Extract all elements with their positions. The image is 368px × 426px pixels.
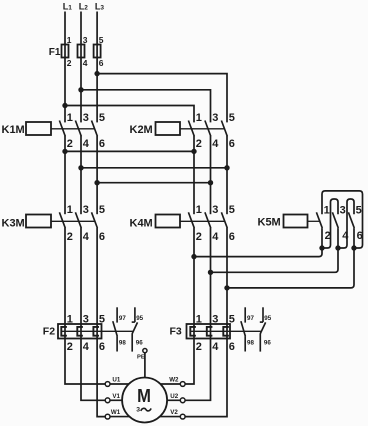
- svg-text:1: 1: [67, 313, 73, 325]
- terminal U1: [105, 382, 110, 387]
- contactor K4M coil: [156, 215, 181, 228]
- svg-text:1: 1: [196, 112, 202, 124]
- wire U2 stub to motor: [167, 399, 180, 401]
- svg-text:97: 97: [119, 315, 126, 322]
- svg-text:4: 4: [83, 138, 90, 150]
- svg-text:98: 98: [247, 340, 254, 347]
- overload F2 NO aux contact 97-98: [116, 307, 118, 322]
- wire V2 stub to motor: [160, 416, 181, 418]
- node tie row 1 right junction: [192, 149, 196, 153]
- svg-text:3: 3: [340, 204, 346, 216]
- overload F3 NO aux contact 97-98: [244, 307, 246, 322]
- fuse F1 pole 3 body: [94, 45, 101, 58]
- svg-text:5: 5: [356, 204, 362, 216]
- contactor K5M coil: [284, 215, 308, 228]
- svg-text:1: 1: [67, 35, 72, 45]
- wire K4M pole 2 through F3 to motor: [185, 228, 210, 401]
- wire L1 vertical: [64, 12, 66, 123]
- svg-text:5: 5: [99, 112, 105, 124]
- wire K1M pole 2 to K3M pole 2: [80, 136, 82, 214]
- svg-text:4: 4: [83, 341, 90, 353]
- svg-text:1: 1: [67, 112, 73, 124]
- wire K5M ring pin2 to pin3 loop: [322, 199, 338, 248]
- wire V1 stub to motor: [110, 399, 122, 401]
- wire tie K1M-2 to K2M-2: [65, 150, 194, 152]
- overload relay F3 body: [187, 324, 231, 339]
- svg-text:96: 96: [264, 340, 271, 347]
- svg-text:6: 6: [229, 341, 235, 353]
- svg-text:L1: L1: [63, 1, 73, 11]
- overload F2 heater element 3: [93, 327, 99, 336]
- terminal V2: [180, 414, 185, 419]
- svg-text:3: 3: [212, 313, 218, 325]
- fuse F1 pole 2 body: [78, 45, 85, 58]
- svg-text:4: 4: [212, 231, 219, 243]
- wire K1M pole 3 to K3M pole 3: [96, 136, 98, 214]
- contactor K2M actuator link: [180, 128, 225, 130]
- node K5M pole 3 bottom junction: [352, 246, 356, 250]
- svg-text:3: 3: [83, 112, 89, 124]
- wire K2M pole 1 to K4M pole 1: [193, 136, 195, 214]
- svg-text:6: 6: [99, 231, 105, 243]
- node tie row 2 right junction: [225, 166, 229, 170]
- wire K5M ring pin1 to pin6 bracket: [322, 191, 363, 248]
- contact blade K4M pole 1: [188, 212, 194, 228]
- svg-text:4: 4: [83, 58, 88, 68]
- contact blade K1M pole 2: [75, 121, 81, 137]
- svg-text:F1: F1: [49, 47, 61, 58]
- svg-text:5: 5: [99, 35, 104, 45]
- contactor K2M coil: [156, 122, 181, 135]
- fuse F1 pole 1 body: [62, 45, 69, 58]
- wire tie K1M-6 to K2M-4: [97, 182, 210, 184]
- terminal V1: [105, 398, 110, 403]
- contact blade K2M pole 1: [188, 121, 194, 137]
- terminal U2: [180, 398, 185, 403]
- overload relay F2 body: [58, 324, 102, 339]
- svg-text:3: 3: [83, 35, 88, 45]
- wire K5M pole 2 to K4M column 2: [211, 248, 339, 272]
- node tie row 3 left junction: [95, 181, 99, 185]
- wire U1 stub to motor: [110, 383, 129, 385]
- terminal PE: [143, 349, 147, 353]
- svg-text:4: 4: [342, 230, 349, 242]
- svg-text:K3M: K3M: [2, 217, 25, 229]
- contact blade K3M pole 2: [75, 212, 81, 228]
- svg-text:5: 5: [229, 204, 235, 216]
- wire K3M pole 3 through F2 to motor: [97, 228, 105, 417]
- wire K4M pole 1 through F3 to motor: [185, 228, 194, 384]
- svg-text:6: 6: [229, 138, 235, 150]
- contact blade K1M pole 1: [59, 121, 65, 137]
- node star tie junction column 3: [225, 286, 229, 290]
- contact blade K3M pole 3: [92, 212, 98, 228]
- svg-text:4: 4: [212, 138, 219, 150]
- wire L2 vertical: [80, 12, 82, 123]
- overload F3 trip link: [190, 330, 262, 332]
- overload F3 heater element 3: [223, 327, 229, 336]
- svg-text:2: 2: [196, 341, 202, 353]
- wire K5M ring pin4 to pin5 loop: [338, 199, 354, 248]
- svg-text:V1: V1: [112, 393, 120, 400]
- svg-text:6: 6: [99, 138, 105, 150]
- svg-text:U1: U1: [112, 377, 120, 384]
- node L2 branch junction: [79, 88, 83, 92]
- node tie row 3 right junction: [208, 181, 212, 185]
- svg-text:1: 1: [196, 204, 202, 216]
- svg-text:M: M: [137, 385, 151, 406]
- wire K3M pole 1 through F2 to motor: [65, 228, 105, 384]
- contact blade K5M pole 1: [316, 212, 322, 228]
- svg-text:K4M: K4M: [130, 217, 153, 229]
- svg-text:3: 3: [83, 313, 89, 325]
- svg-text:4: 4: [212, 341, 219, 353]
- svg-text:5: 5: [229, 313, 235, 325]
- svg-text:2: 2: [196, 231, 202, 243]
- contact blade K2M pole 2: [205, 121, 211, 137]
- svg-text:2: 2: [67, 231, 73, 243]
- motor M1 tilde: [141, 408, 151, 411]
- node L3 branch junction: [95, 71, 99, 75]
- contact blade K1M pole 3: [92, 121, 98, 137]
- svg-text:2: 2: [325, 230, 331, 242]
- node L1 branch junction: [63, 103, 67, 107]
- svg-text:2: 2: [67, 58, 72, 68]
- wire K5M pole 1 to K4M column 1: [194, 248, 322, 257]
- contactor K3M actuator link: [51, 220, 95, 222]
- contact blade K5M pole 3: [348, 212, 354, 228]
- wire K2M pole 3 to K4M pole 3: [226, 136, 228, 214]
- wire L3 branch to K2M pole 3: [97, 74, 227, 123]
- svg-text:4: 4: [83, 231, 90, 243]
- node K5M pole 2 bottom junction: [336, 246, 340, 250]
- wire K2M pole 2 to K4M pole 2: [210, 136, 212, 214]
- svg-text:W2: W2: [169, 377, 179, 384]
- svg-text:K2M: K2M: [130, 124, 153, 136]
- svg-text:L2: L2: [79, 1, 89, 11]
- contact blade K3M pole 1: [59, 212, 65, 228]
- contactor K3M coil: [26, 215, 51, 228]
- overload F3 NC aux contact 95-96: [262, 307, 264, 322]
- contactor K5M pole 3 lower terminal: [353, 228, 355, 248]
- svg-text:5: 5: [99, 313, 105, 325]
- svg-text:2: 2: [67, 341, 73, 353]
- terminal W2: [180, 382, 185, 387]
- svg-text:1: 1: [67, 204, 73, 216]
- svg-text:5: 5: [99, 204, 105, 216]
- node star tie junction column 2: [208, 270, 212, 274]
- wire L2 branch to K2M pole 2: [81, 90, 211, 123]
- overload F3 heater element 2: [207, 327, 213, 336]
- wire tie K1M-4 to K2M-6: [81, 167, 227, 169]
- wire K1M pole 1 to K3M pole 1: [64, 136, 66, 214]
- svg-text:3: 3: [136, 407, 140, 414]
- wire L3 vertical: [96, 12, 98, 123]
- svg-text:U2: U2: [170, 393, 178, 400]
- svg-text:6: 6: [357, 230, 363, 242]
- svg-text:95: 95: [264, 315, 271, 322]
- svg-text:F2: F2: [43, 326, 55, 338]
- overload F2 heater element 1: [61, 327, 67, 336]
- svg-text:95: 95: [136, 315, 143, 322]
- node tie row 1 left junction: [63, 149, 67, 153]
- wire K5M pole 3 to K4M column 3: [227, 248, 354, 288]
- svg-text:96: 96: [136, 340, 143, 347]
- svg-text:98: 98: [119, 340, 126, 347]
- svg-text:W1: W1: [111, 409, 121, 416]
- svg-text:6: 6: [99, 58, 104, 68]
- contact blade K4M pole 2: [205, 212, 211, 228]
- svg-text:K5M: K5M: [258, 217, 281, 229]
- wire L1 branch to K2M pole 1: [65, 106, 194, 123]
- overload F2 trip link: [62, 330, 134, 332]
- node K5M pole 1 bottom junction: [320, 246, 324, 250]
- svg-text:5: 5: [229, 112, 235, 124]
- wire K4M pole 3 through F3 to motor: [185, 228, 227, 417]
- terminal W1: [105, 414, 110, 419]
- svg-text:3: 3: [83, 204, 89, 216]
- svg-text:1: 1: [196, 313, 202, 325]
- svg-text:2: 2: [67, 138, 73, 150]
- svg-text:PE: PE: [137, 355, 145, 361]
- contact blade K4M pole 3: [221, 212, 227, 228]
- wire K3M pole 2 through F2 to motor: [81, 228, 105, 401]
- svg-text:V2: V2: [170, 409, 178, 416]
- contactor K5M pole 1 lower terminal: [321, 228, 323, 248]
- overload F2 NC aux contact 95-96: [134, 307, 136, 322]
- wire PE to motor frame: [144, 353, 146, 378]
- svg-text:6: 6: [229, 231, 235, 243]
- contactor K1M actuator link: [51, 128, 95, 130]
- svg-text:K1M: K1M: [2, 124, 25, 136]
- contactor K5M actuator link: [308, 220, 320, 222]
- node tie row 2 left junction: [79, 166, 83, 170]
- svg-text:F3: F3: [170, 326, 182, 338]
- overload F2 heater element 2: [77, 327, 83, 336]
- contactor K5M pole 2 lower terminal: [337, 228, 339, 248]
- wire W1 stub to motor: [110, 416, 129, 418]
- svg-text:3: 3: [212, 112, 218, 124]
- contactor K1M coil: [26, 122, 51, 135]
- node star tie junction column 1: [192, 254, 196, 258]
- svg-text:L3: L3: [95, 1, 105, 11]
- contact blade K5M pole 2: [332, 212, 338, 228]
- svg-text:97: 97: [247, 315, 254, 322]
- motor M1 body: [122, 378, 167, 423]
- svg-text:2: 2: [196, 138, 202, 150]
- svg-text:3: 3: [212, 204, 218, 216]
- overload F3 heater element 1: [190, 327, 196, 336]
- svg-text:6: 6: [99, 341, 105, 353]
- svg-text:1: 1: [324, 204, 330, 216]
- contactor K4M actuator link: [180, 220, 225, 222]
- wire W2 stub to motor: [160, 383, 180, 385]
- contact blade K2M pole 3: [221, 121, 227, 137]
